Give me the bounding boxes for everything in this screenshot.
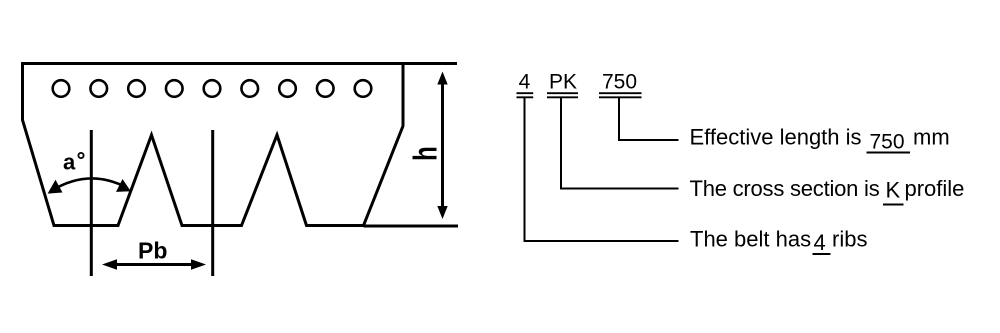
double underline under 750 — [599, 92, 642, 94]
cord circle 5 — [204, 80, 221, 97]
svg-text:mm: mm — [913, 125, 950, 150]
h dimension arrow — [441, 78, 444, 213]
svg-text:a: a — [63, 150, 76, 175]
svg-text:Effective length is: Effective length is — [690, 125, 862, 150]
svg-text:h: h — [408, 146, 445, 161]
connector stem from PK — [561, 98, 679, 189]
svg-text:The belt has: The belt has — [690, 227, 811, 252]
connector stem from 750 — [619, 98, 679, 140]
cord circle 8 — [317, 80, 334, 97]
cord circle 3 — [128, 80, 145, 97]
svg-text:The cross section is: The cross section is — [690, 176, 880, 201]
svg-text:750: 750 — [870, 131, 905, 154]
cord circle 4 — [166, 80, 183, 97]
connector stem from 4 — [525, 98, 679, 241]
svg-text:PK: PK — [549, 71, 577, 94]
double underline under 4 — [517, 92, 534, 94]
angle arc with arrowheads — [52, 178, 127, 190]
cord circle 6 — [241, 80, 258, 97]
double underline under PK — [547, 92, 578, 94]
belt cross-section outline — [23, 64, 404, 226]
svg-text:K: K — [886, 178, 901, 203]
svg-text:ribs: ribs — [832, 227, 867, 252]
cord circle 9 — [355, 80, 372, 97]
Pb reference line left — [90, 130, 93, 276]
svg-text:750: 750 — [602, 71, 637, 94]
bottom extension line — [364, 225, 459, 228]
svg-text:Pb: Pb — [138, 238, 167, 264]
svg-text:4: 4 — [519, 71, 531, 94]
cord circle 2 — [90, 80, 107, 97]
svg-text:profile: profile — [905, 176, 965, 201]
cord circle 1 — [53, 80, 70, 97]
cord circle 7 — [279, 80, 296, 97]
svg-text:4: 4 — [814, 230, 826, 255]
Pb dimension arrow — [110, 263, 198, 266]
Pb reference line right — [211, 130, 214, 276]
top extension line — [403, 62, 457, 65]
